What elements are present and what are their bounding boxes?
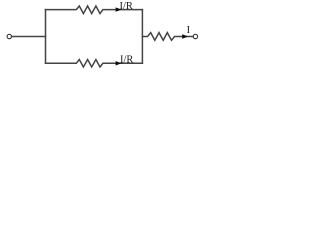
svg-text:I: I (187, 25, 191, 36)
svg-text:I/R: I/R (120, 54, 133, 65)
svg-text:I/R: I/R (120, 1, 133, 12)
